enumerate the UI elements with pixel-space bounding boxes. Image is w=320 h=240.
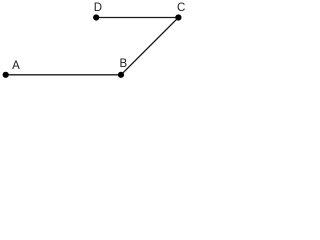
point A bbox=[3, 72, 9, 78]
svg-text:B: B bbox=[119, 58, 127, 70]
point D bbox=[93, 14, 99, 20]
segment DC bbox=[96, 17, 178, 19]
point B bbox=[118, 72, 124, 78]
svg-text:D: D bbox=[94, 2, 102, 14]
svg-text:A: A bbox=[12, 60, 20, 72]
segment AB bbox=[6, 74, 121, 76]
svg-text:C: C bbox=[177, 2, 185, 14]
segment BC bbox=[121, 18, 178, 75]
point C bbox=[175, 14, 181, 20]
